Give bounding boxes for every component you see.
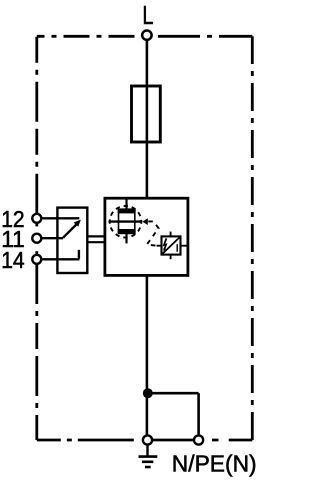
wire L down through fuse to block (146, 35, 149, 198)
varistor bottom lead (125, 233, 127, 243)
switch blade with arrowhead (63, 220, 81, 238)
varistor body with electrode bars (118, 209, 136, 233)
terminal N/PE (right bottom) (194, 435, 203, 444)
status indicator box right lead (181, 245, 188, 247)
disconnector arrow (142, 218, 148, 225)
label N/PE(N) (172, 450, 257, 476)
svg-text:14: 14 (1, 247, 25, 273)
switch contact 12 line (41, 217, 79, 219)
junction node (143, 388, 153, 398)
dashed linkage to indicator (147, 221, 159, 245)
terminal 11 (32, 234, 41, 243)
enclosure dashed border right edge (251, 36, 254, 440)
switch contact 14 line (41, 250, 79, 259)
enclosure border stub above terminal 14 (35, 251, 38, 255)
varistor monitoring dashed circle (110, 206, 142, 238)
terminal 14 (32, 255, 41, 264)
terminal L (142, 31, 151, 40)
label 11 (1, 226, 25, 252)
label 14 (1, 247, 25, 273)
enclosure border stub below terminal 12 (35, 223, 38, 227)
switch common 11 line (41, 237, 63, 239)
changeover switch box (57, 208, 87, 273)
thermal disconnector line (109, 220, 142, 222)
status indicator inner tick (176, 244, 178, 252)
SPD module block (105, 198, 188, 275)
status indicator box left lead (157, 245, 162, 247)
mechanical linkage double line (87, 236, 105, 242)
ground symbol (139, 445, 158, 467)
enclosure dashed border left edge upper (35, 36, 38, 214)
svg-text:L: L (142, 2, 153, 30)
status indicator top tick (170, 232, 172, 237)
node L label (142, 2, 153, 30)
status indicator flash symbol (163, 238, 166, 251)
label 12 (1, 206, 25, 232)
wire block bottom to junction and N/PE terminal (146, 275, 149, 436)
wire junction to right branch horizontal (148, 392, 199, 395)
svg-text:N/PE(N): N/PE(N) (172, 450, 256, 476)
varistor top lead (125, 198, 127, 209)
status indicator diagonal (163, 238, 180, 254)
status indicator box (162, 236, 181, 254)
enclosure dashed border top-right segment (158, 35, 252, 38)
terminal PE (left bottom) (143, 435, 152, 444)
fuse (132, 86, 161, 142)
status indicator bottom tick (170, 255, 172, 260)
enclosure dashed border bottom-left segment (37, 439, 143, 442)
wire right branch vertical down to terminal (197, 393, 200, 436)
wire solid bottom segment between terminals (148, 439, 199, 442)
terminal 12 (32, 214, 41, 223)
enclosure dashed border left edge lower (35, 264, 38, 440)
enclosure dashed border bottom-right segment (204, 439, 252, 442)
enclosure dashed border top-left segment (37, 35, 135, 38)
